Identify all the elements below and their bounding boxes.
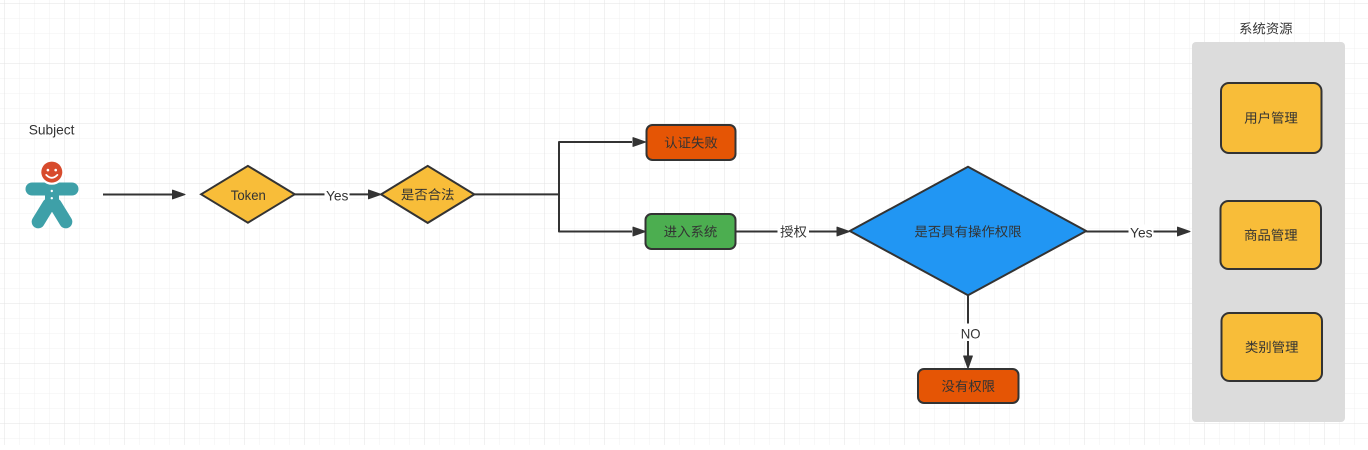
wire permission-check to no-permission, label NO — [959, 295, 983, 368]
svg-text:NO: NO — [961, 325, 981, 341]
decision permission-check 是否具有操作权限 — [850, 167, 1086, 295]
actor Subject (gingerbread man) — [26, 159, 79, 221]
wire enter-system to permission-check, label 授权 — [736, 224, 850, 239]
wire Token to legal-check, label Yes — [295, 188, 381, 204]
wire permission-check to resources, label Yes — [1086, 224, 1190, 240]
node 用户管理 — [1221, 83, 1322, 153]
process auth-fail 认证失败 — [647, 125, 736, 160]
wire legal-check to auth-fail — [474, 138, 645, 195]
svg-text:Subject: Subject — [29, 121, 75, 137]
process no-permission 没有权限 — [918, 369, 1019, 403]
container system-resources panel — [1192, 42, 1345, 422]
svg-text:Yes: Yes — [326, 188, 349, 204]
wire legal-check to enter-system — [559, 194, 646, 236]
svg-text:Yes: Yes — [1130, 224, 1153, 240]
svg-text:Token: Token — [231, 187, 266, 203]
decision Token — [201, 166, 295, 223]
process enter-system 进入系统 — [646, 214, 736, 249]
node 商品管理 — [1221, 201, 1322, 269]
decision legal-check 是否合法 — [381, 166, 474, 223]
label 系统资源 — [1240, 22, 1292, 34]
wire actor to Token — [103, 190, 185, 199]
node 类别管理 — [1222, 313, 1323, 381]
